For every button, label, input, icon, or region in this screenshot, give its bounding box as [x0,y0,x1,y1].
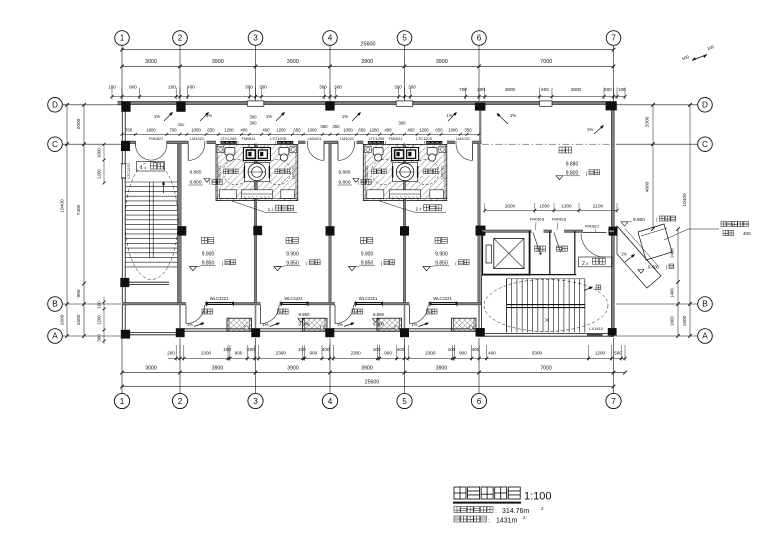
svg-text:2: 2 [416,207,419,213]
svg-text:2300: 2300 [276,351,287,356]
svg-text:1600: 1600 [60,314,66,325]
svg-text:9.850: 9.850 [202,260,215,266]
svg-text:FM0618: FM0618 [530,217,544,222]
svg-text:2: 2 [178,397,183,406]
svg-text:9.900: 9.900 [435,251,448,257]
svg-text:9.885: 9.885 [338,170,350,176]
svg-text:9.900: 9.900 [633,217,645,223]
svg-text:D: D [52,101,58,110]
svg-text:B: B [702,300,708,309]
svg-text:3900: 3900 [361,59,373,65]
svg-text:FM0811: FM0811 [389,136,403,141]
svg-text:1400: 1400 [670,288,675,298]
svg-text:3000: 3000 [145,59,157,65]
svg-text:100: 100 [448,347,456,352]
svg-text:400: 400 [488,351,496,356]
svg-text:5: 5 [402,34,407,43]
svg-text:400: 400 [384,128,392,133]
svg-text:300: 300 [259,85,267,90]
svg-text:1431m: 1431m [496,518,518,525]
svg-text:2000: 2000 [645,116,651,127]
svg-text:C: C [702,140,708,149]
svg-text:500: 500 [614,351,622,356]
svg-text:3900: 3900 [436,59,448,65]
svg-text:600: 600 [541,87,549,92]
svg-text:3: 3 [253,397,258,406]
svg-text:500: 500 [604,87,612,92]
svg-text:1200: 1200 [276,128,286,133]
svg-text:350: 350 [320,124,328,129]
svg-text:1%: 1% [187,322,193,327]
svg-text:9.850: 9.850 [299,312,311,317]
svg-text:LM1021: LM1021 [218,165,222,179]
svg-text:9.850: 9.850 [361,260,374,266]
svg-text:9.900: 9.900 [202,251,215,257]
svg-text:1%: 1% [446,113,452,118]
svg-text:1600: 1600 [670,316,675,326]
svg-text:1: 1 [268,207,271,213]
svg-text:300: 300 [319,85,327,90]
svg-text:300: 300 [97,334,102,342]
svg-text:9.800: 9.800 [373,322,385,327]
svg-text:7000: 7000 [540,59,552,65]
svg-text:#: # [586,262,588,266]
svg-text:3900: 3900 [287,365,299,371]
svg-text:2300: 2300 [425,351,436,356]
svg-text:A: A [52,332,58,341]
svg-text:1%: 1% [342,114,348,119]
svg-text:900: 900 [309,351,317,356]
svg-text:700: 700 [459,87,467,92]
svg-text:700: 700 [169,128,177,133]
svg-text:2: 2 [178,34,183,43]
svg-text:4: 4 [328,34,333,43]
svg-text:1200: 1200 [97,315,102,325]
svg-text:1000: 1000 [97,148,102,158]
svg-text:D: D [702,101,708,110]
svg-text:25600: 25600 [365,379,380,385]
svg-text:900: 900 [459,351,467,356]
svg-text:3800: 3800 [505,87,516,92]
svg-text:9.800: 9.800 [338,180,350,186]
svg-text:1%: 1% [411,322,417,327]
svg-text:10400: 10400 [60,199,66,213]
svg-text:1300: 1300 [561,204,572,209]
svg-text:700: 700 [125,128,133,133]
svg-text:9.880: 9.880 [566,161,579,167]
svg-text:650: 650 [358,128,366,133]
svg-text:1%: 1% [587,127,593,132]
svg-text:400: 400 [187,85,195,90]
svg-text:9.800: 9.800 [189,180,201,186]
svg-text:3000: 3000 [145,365,157,371]
svg-text:400: 400 [407,128,415,133]
svg-text:400: 400 [262,128,270,133]
svg-text:9.850: 9.850 [435,260,448,266]
svg-text:1200: 1200 [369,128,379,133]
svg-text:3900: 3900 [436,365,448,371]
svg-text:1000: 1000 [307,128,317,133]
svg-text:300: 300 [334,85,342,90]
svg-text:LX1415: LX1415 [589,326,604,331]
svg-text:1200: 1200 [419,128,429,133]
svg-text:400: 400 [472,347,480,352]
svg-text:1%: 1% [154,114,160,119]
svg-text:LTC1208: LTC1208 [369,136,385,141]
svg-text:200: 200 [167,351,175,356]
svg-text:1000: 1000 [539,204,550,209]
svg-text:350: 350 [332,124,340,129]
svg-text:LM1021: LM1021 [190,136,204,141]
svg-text:7400: 7400 [76,204,82,215]
svg-text:400: 400 [743,231,751,236]
svg-text:#: # [420,208,422,212]
svg-text:100: 100 [108,85,116,90]
svg-text:10400: 10400 [682,193,688,207]
svg-text:1600: 1600 [76,314,82,325]
svg-text:9.900: 9.900 [286,251,299,257]
svg-text:2300: 2300 [201,351,212,356]
svg-text:FM0811: FM0811 [242,136,256,141]
svg-text:1%: 1% [206,113,212,118]
svg-text:C: C [52,140,58,149]
svg-text:WLC2221: WLC2221 [284,296,303,301]
svg-text:1%: 1% [337,322,343,327]
svg-text:650: 650 [435,128,443,133]
svg-text:650: 650 [207,128,215,133]
svg-text:100: 100 [223,347,231,352]
svg-text:1%: 1% [510,113,516,118]
svg-text:650: 650 [293,128,301,133]
svg-text:4600: 4600 [645,181,651,192]
svg-text:FM0618: FM0618 [552,217,566,222]
svg-text:2000: 2000 [76,118,82,129]
svg-text:FM0621: FM0621 [585,224,599,229]
svg-text:2300: 2300 [350,351,361,356]
svg-text:314.76m: 314.76m [502,508,529,515]
svg-text:300: 300 [245,85,253,90]
svg-text:9.800: 9.800 [566,170,579,176]
svg-text:1: 1 [120,397,125,406]
svg-text:3900: 3900 [212,59,224,65]
svg-text:9.885: 9.885 [189,170,201,176]
svg-text:2: 2 [582,261,585,267]
svg-text:3900: 3900 [287,59,299,65]
svg-text:5300: 5300 [532,351,543,356]
svg-text:400: 400 [322,347,330,352]
svg-text:#: # [272,208,274,212]
svg-text:1%: 1% [266,114,272,119]
svg-text:1200: 1200 [97,169,102,179]
svg-text:6: 6 [477,34,482,43]
svg-text:LM1021: LM1021 [365,165,369,179]
svg-text:1000: 1000 [343,128,353,133]
svg-text:FM0821: FM0821 [149,136,163,141]
svg-text:9.850: 9.850 [286,260,299,266]
svg-text:300: 300 [398,121,406,126]
svg-text:LM1021: LM1021 [292,165,296,179]
svg-text:300: 300 [394,85,402,90]
svg-text:300: 300 [477,87,485,92]
svg-text:1%: 1% [621,252,627,257]
svg-text:1200: 1200 [595,351,606,356]
svg-text:300: 300 [249,115,257,120]
svg-text:A: A [702,332,708,341]
svg-text:9.400: 9.400 [648,265,660,270]
svg-text:1600: 1600 [682,315,688,326]
svg-text:350: 350 [464,128,472,133]
svg-text:3: 3 [253,34,258,43]
svg-text:LTC1208: LTC1208 [270,136,286,141]
svg-text:900: 900 [235,351,243,356]
svg-text:LTC1208: LTC1208 [221,136,237,141]
svg-text:2600: 2600 [505,204,516,209]
svg-text:990: 990 [76,289,82,297]
svg-text:1%: 1% [262,322,268,327]
svg-text:3900: 3900 [212,365,224,371]
svg-text:1600: 1600 [146,128,156,133]
svg-text:300: 300 [408,85,416,90]
svg-text:6: 6 [477,397,482,406]
svg-text:100: 100 [618,87,626,92]
svg-text:2800: 2800 [571,87,582,92]
svg-text:1:100: 1:100 [524,491,552,503]
svg-text:LTC1215: LTC1215 [127,163,131,178]
svg-text:100: 100 [373,347,381,352]
svg-text:LM1021: LM1021 [340,136,354,141]
svg-text:350: 350 [178,122,185,127]
svg-text:4: 4 [328,397,333,406]
svg-text:7000: 7000 [540,365,552,371]
svg-text:3900: 3900 [361,365,373,371]
svg-text:9.850: 9.850 [373,312,385,317]
svg-text:400: 400 [240,128,248,133]
svg-text:WLC2221: WLC2221 [359,296,378,301]
svg-text:100: 100 [298,347,306,352]
svg-text:B: B [52,300,58,309]
svg-text:400: 400 [397,347,405,352]
svg-text:5: 5 [402,397,407,406]
svg-text:1: 1 [120,34,125,43]
svg-text:100: 100 [97,301,102,309]
svg-text:WLC2221: WLC2221 [210,296,229,301]
svg-text:200: 200 [168,85,176,90]
svg-text:LTC1209: LTC1209 [416,136,432,141]
svg-text:900: 900 [129,85,137,90]
svg-text:400: 400 [247,347,255,352]
svg-text:7: 7 [611,34,616,43]
svg-text:#: # [145,166,147,170]
svg-text:7: 7 [611,397,616,406]
svg-text:LM1021: LM1021 [307,136,321,141]
svg-text:25600: 25600 [361,42,376,48]
svg-text:2100: 2100 [593,204,604,209]
svg-text:9.800: 9.800 [299,322,311,327]
svg-text:1000: 1000 [191,128,201,133]
svg-text:9.900: 9.900 [361,251,374,257]
svg-text:900: 900 [384,351,392,356]
svg-text:1200: 1200 [224,128,234,133]
svg-text:WLC2221: WLC2221 [433,296,452,301]
svg-text:300: 300 [249,121,257,126]
svg-text:LM1021: LM1021 [441,165,445,179]
svg-text:1000: 1000 [448,128,458,133]
svg-text:LM1021: LM1021 [456,136,470,141]
